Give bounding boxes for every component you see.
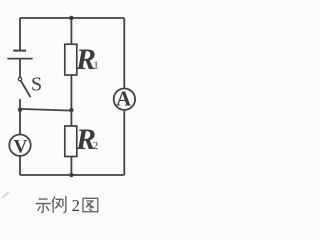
svg-text:1: 1 bbox=[93, 59, 99, 71]
svg-text:2: 2 bbox=[72, 196, 80, 215]
svg-text:2: 2 bbox=[93, 140, 99, 152]
svg-text:V: V bbox=[14, 136, 28, 157]
svg-text:S: S bbox=[31, 74, 42, 96]
svg-text:A: A bbox=[116, 87, 132, 111]
